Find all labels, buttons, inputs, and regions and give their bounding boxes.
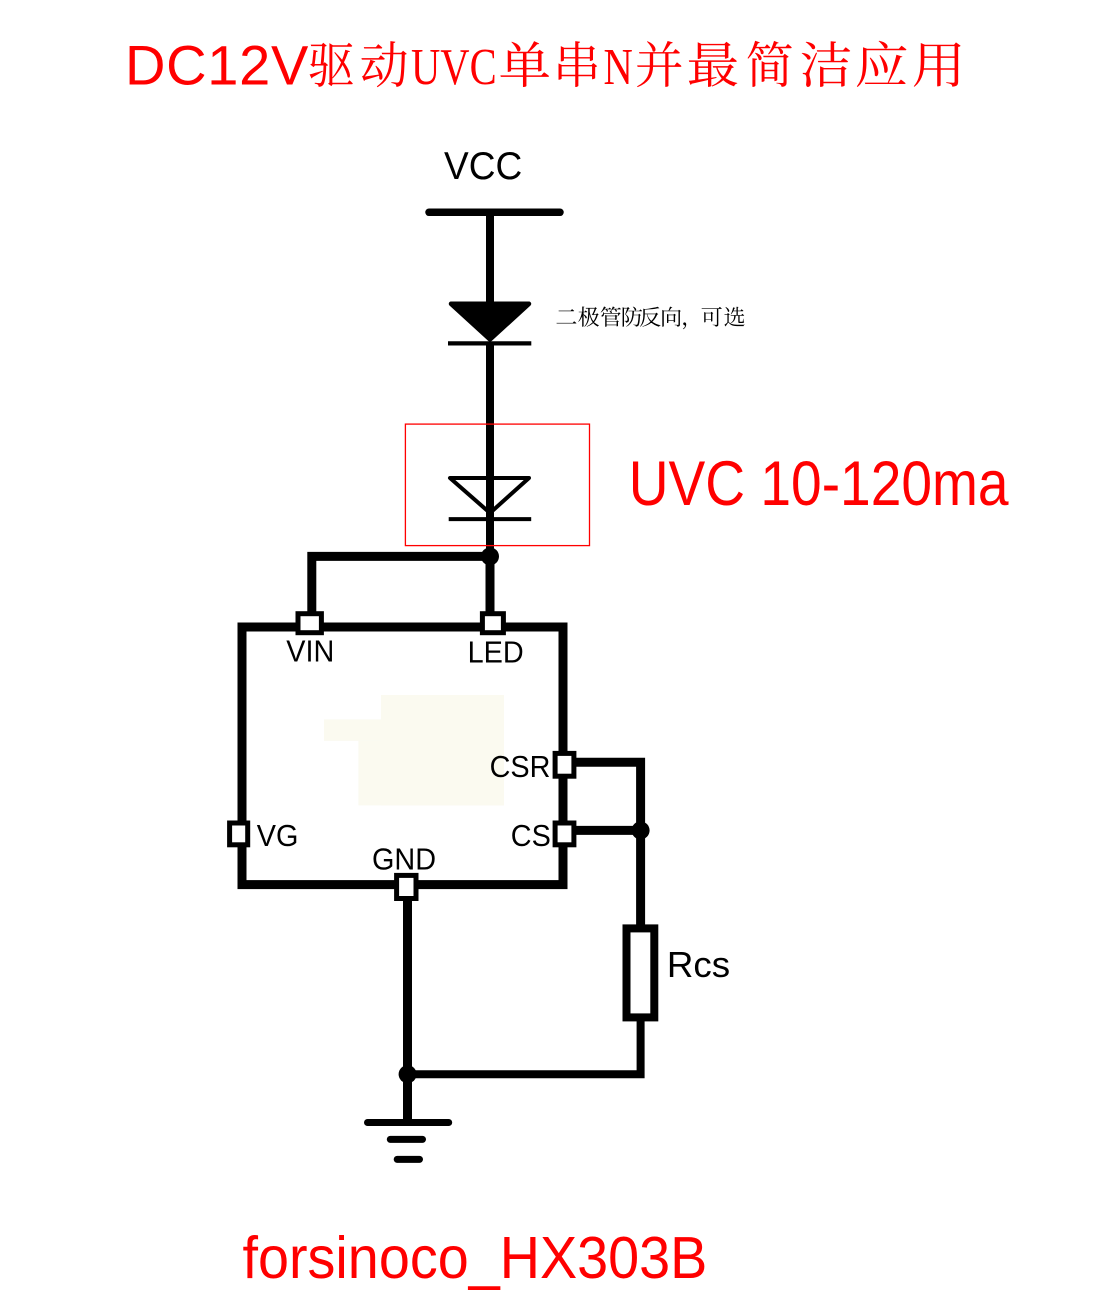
wire junction to VIN riser (horizontal) [312,556,490,613]
pin VG (left) [230,823,248,845]
junction node ground [399,1065,417,1083]
diode D1 cathode bar [448,341,531,345]
pin LED (top) [482,614,503,633]
wire Rcs bottom to ground rail [408,1017,641,1074]
annotation text: 二极管防反向，可选 (black) [557,309,577,323]
UVC LED D2 triangle (open) [450,478,529,513]
wire VCC to diode anode [486,212,494,305]
title char 洁 (red) [802,41,851,87]
svg-text:VCC: VCC [444,145,522,188]
title char 最 (red) [689,42,738,87]
svg-text:N: N [604,38,633,96]
wire diode cathode to UVC LED [486,343,494,556]
title char 驱 (red) [310,43,353,87]
ground symbol bar 2 [390,1136,422,1143]
pin VIN (top) [298,614,321,633]
ground symbol bar 3 [397,1156,419,1163]
junction node CS/CSR/Rcs [632,821,650,839]
svg-text:GND: GND [372,843,436,877]
resistor Rcs body [627,928,655,1017]
title char 单 (red) [500,41,549,87]
svg-text:VIN: VIN [286,635,334,669]
title char 简 (red) [748,41,792,87]
power rail bar VCC [429,209,560,217]
svg-text:VG: VG [257,819,299,853]
svg-text:CS: CS [511,819,551,853]
svg-text:UVC 10-120ma: UVC 10-120ma [629,448,1009,519]
svg-text:Rcs: Rcs [667,944,730,985]
pin CS (right) [555,823,574,845]
ground symbol bar 1 [368,1119,449,1126]
wire GND pin down to ground junction [403,898,412,1122]
title char 用 (red) [914,42,961,86]
pin CSR (right) [555,753,574,776]
svg-text:CSR: CSR [490,750,551,784]
junction node: LED cathode / VIN / LED pin [481,547,499,565]
title char 动 (red) [361,41,406,87]
title char 串 (red) [559,41,598,87]
wire junction down to Rcs [636,830,645,928]
UVC LED D2 cathode bar [449,517,532,521]
wire CS pin to junction [574,826,641,835]
wire CSR pin to right bus [574,762,641,830]
svg-text:DC12V: DC12V [125,34,309,97]
title char 并 (red) [637,41,681,87]
svg-text:LED: LED [468,636,524,670]
diode D1 (reverse protection, filled) [451,304,529,340]
svg-text:forsinoco_HX303B: forsinoco_HX303B [243,1226,708,1292]
red highlight box around UVC LED [405,424,589,545]
IC U1 body HX303B [242,627,563,885]
wire junction down to LED pin [486,556,495,616]
pin GND (bottom) [397,875,416,898]
title char 应 (red) [857,41,907,87]
watermark cream patch inside IC [324,695,504,806]
svg-text:UVC: UVC [411,38,497,96]
